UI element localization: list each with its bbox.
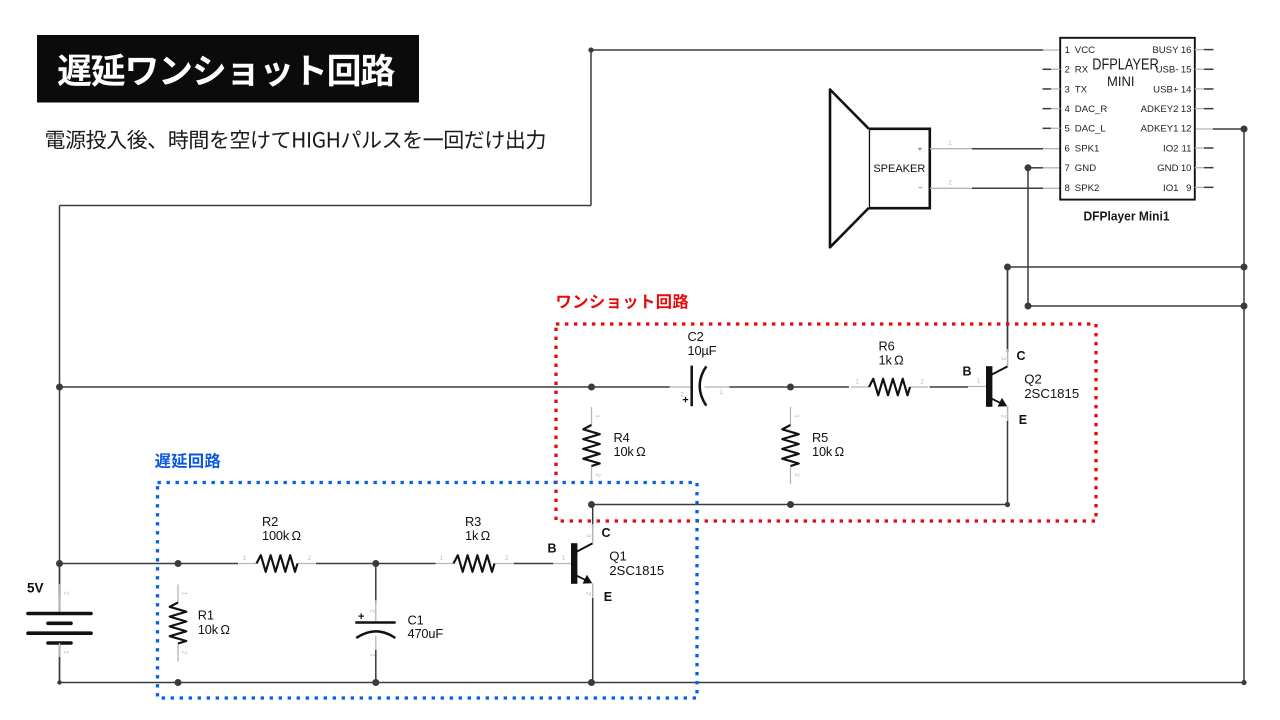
svg-text:VCC: VCC [1075,45,1095,56]
node: Q2 emitter joins row [1005,502,1010,507]
svg-text:1: 1 [719,389,723,396]
svg-text:RX: RX [1075,65,1089,76]
node: junction R4 top on supply row [588,384,595,391]
pin 14 USB+ [1195,88,1204,90]
svg-text:E: E [604,590,612,604]
svg-text:7: 7 [1065,163,1070,174]
svg-text:C2: C2 [688,329,704,344]
svg-text:B: B [962,365,971,379]
pin 15 USB- [1195,68,1204,70]
battery 5V [59,564,61,596]
svg-text:1: 1 [440,555,444,562]
svg-text:ADKEY1: ADKEY1 [1141,124,1179,135]
svg-text:MINI: MINI [1107,73,1135,89]
svg-text:SPK1: SPK1 [1075,143,1100,154]
svg-text:E: E [1019,413,1027,427]
svg-text:2: 2 [1000,415,1007,419]
svg-text:1: 1 [948,140,952,147]
svg-text:10k Ω: 10k Ω [614,444,647,459]
svg-text:3: 3 [1000,357,1007,361]
svg-text:TX: TX [1075,84,1088,95]
svg-text:2: 2 [793,473,800,477]
wire: one-shot supply row y=387 from left rail to C2 [60,386,671,388]
svg-text:10: 10 [1181,163,1192,174]
wire: C2 right side to R5 node [705,386,732,388]
svg-text:Q2: Q2 [1024,372,1042,387]
wire: 5V rail top-left horizontal run y=205.5 [60,205,592,207]
svg-text:2SC1815: 2SC1815 [1024,386,1079,401]
svg-text:10µF: 10µF [688,343,717,358]
subtitle [46,130,544,150]
svg-text:470uF: 470uF [408,626,444,641]
svg-text:ADKEY2: ADKEY2 [1141,104,1179,115]
svg-text:IO1: IO1 [1163,183,1178,194]
svg-text:13: 13 [1181,104,1192,115]
wire: GND row y=306 from x=1028 to right rail [1028,305,1244,307]
svg-text:C: C [602,526,611,540]
svg-text:DAC_L: DAC_L [1075,124,1107,135]
label delay (blue) [155,453,221,469]
svg-text:2: 2 [369,609,376,613]
svg-text:Q1: Q1 [609,549,627,564]
node: junction at pin7 wire (1028,168) [1025,164,1032,171]
wire: pin7 GND stub [1028,167,1043,169]
svg-text:1: 1 [855,379,859,386]
node: junction R4 bottom / Q1 collector / row [588,501,595,508]
resistor R3 [436,563,454,565]
wire: R5 node to R6 to Q2 base [791,386,850,388]
svg-text:1: 1 [181,592,188,596]
node: corner at (1244,682.5) [1241,680,1246,685]
transistor Q1 2SC1815 [571,543,577,584]
delay region box (blue dotted) [158,483,698,699]
pin 9 IO1 [1195,186,1204,188]
svg-text:B: B [547,542,556,556]
svg-text:2: 2 [920,379,924,386]
node: junction C1 bottom at bottom rail [372,679,379,686]
svg-text:1k Ω: 1k Ω [879,353,905,368]
one-shot region box (red dotted) [556,324,1096,521]
node: junction at (1007.5,267) [1004,264,1011,271]
wire: pin12 ADKEY1 stub to right rail [1196,128,1213,130]
svg-text:IO2: IO2 [1163,143,1178,154]
title block [37,35,419,103]
wire: Q1 collector to one-shot bottom row [592,505,594,528]
wire: right rail x=1244 from y=129 to bottom rail [1243,129,1245,683]
capacitor C2 10uF [690,366,693,407]
capacitor C1 470uF [375,564,377,604]
svg-text:2: 2 [181,651,188,655]
svg-text:GND: GND [1157,163,1178,174]
wire: top run y=50 to DFPlayer pin1 VCC [591,49,1043,51]
node: corner dot at (1244,129) [1241,126,1248,133]
node: junction Q1 emitter at bottom rail [588,679,595,686]
svg-text:1: 1 [1065,45,1070,56]
pin 5 DAC_L [1043,127,1052,129]
svg-text:BUSY: BUSY [1152,45,1179,56]
svg-text:16: 16 [1181,45,1192,56]
pin 2 RX [1043,68,1052,70]
wire: one-shot bottom row y=504.5 from Q1 collector node to Q2 emitter [592,504,1008,506]
svg-text:SPEAKER: SPEAKER [873,163,925,175]
svg-text:2: 2 [505,555,509,562]
svg-text:R1: R1 [198,608,214,623]
svg-text:DAC_R: DAC_R [1075,104,1108,115]
pin 4 DAC_R [1043,108,1052,110]
node: corner at battery bottom (59.5,682.5) [57,680,61,684]
node: junction C1 top on delay row [372,560,379,567]
wire: bottom ground rail y=682.5 [60,682,1245,684]
node: junction at (1028,306) [1025,303,1032,310]
svg-text:−: − [918,184,923,193]
wire: battery bottom lead to bottom rail [59,645,61,683]
node: junction at (1244,267) [1241,264,1248,271]
pin 3 TX [1043,88,1052,90]
svg-text:12: 12 [1181,124,1192,135]
svg-text:1: 1 [562,555,566,562]
svg-text:R3: R3 [465,514,481,529]
wire: speaker - to pin8 SPK2 [930,187,972,189]
label one-shot (red) [557,294,688,309]
svg-text:11: 11 [1182,143,1192,154]
pin 10 GND [1195,167,1204,169]
svg-text:9: 9 [1186,183,1191,194]
wire: speaker + to pin6 SPK1 [930,148,972,150]
node: junction at (1244,306) [1241,303,1248,310]
svg-text:DFPlayer Mini1: DFPlayer Mini1 [1084,210,1170,224]
svg-text:10k Ω: 10k Ω [812,444,845,459]
wire: left 5V rail x=59.5 from y=205.5 to battery top [59,206,61,613]
svg-text:GND: GND [1075,163,1096,174]
resistor R5 [790,407,792,425]
svg-text:2: 2 [63,591,70,595]
svg-text:1: 1 [793,414,800,418]
wire: vertical riser x=591 from y=205.5 to y=50 [590,50,592,206]
svg-text:5V: 5V [27,581,44,596]
svg-text:DFPLAYER: DFPLAYER [1092,56,1159,73]
speaker SPEAKER [869,129,930,208]
svg-text:2: 2 [308,555,312,562]
svg-text:R4: R4 [614,430,630,445]
node: junction left rail / one-shot supply row [56,384,63,391]
svg-text:15: 15 [1181,65,1192,76]
node: junction left rail / delay row [56,560,63,567]
wire: GND riser x=1028 from pin7 down to y=306 [1027,168,1029,306]
svg-text:R5: R5 [812,430,828,445]
svg-text:5: 5 [1065,124,1070,135]
node: junction R1 top on delay row [175,560,182,567]
svg-text:100k Ω: 100k Ω [262,528,302,543]
svg-text:1: 1 [977,378,981,385]
svg-text:SPK2: SPK2 [1075,183,1100,194]
resistor R1 [177,585,179,603]
svg-text:+: + [358,611,364,623]
svg-text:2: 2 [948,180,952,187]
wire: Q1 emitter to ground rail [592,584,594,602]
svg-text:10k Ω: 10k Ω [198,622,231,637]
svg-text:R6: R6 [879,339,895,354]
svg-text:2: 2 [594,473,601,477]
wire: delay row y=563.5 from left rail to Q1 base [60,563,239,565]
svg-text:4: 4 [1065,104,1071,115]
svg-text:USB+: USB+ [1153,84,1179,95]
IC U1 DFPlayer Mini [1060,38,1195,200]
svg-text:R2: R2 [262,514,278,529]
svg-text:+: + [918,145,923,154]
pin 11 IO2 [1195,147,1204,149]
node: corner at (591,50) [588,47,593,52]
wire: Q2 collector riser x=1007.5 up to ADKEY1 row [1007,267,1009,352]
node: junction R1 bottom at bottom rail [175,679,182,686]
svg-text:3: 3 [1065,84,1070,95]
resistor R6 [851,386,869,388]
svg-text:1: 1 [594,414,601,418]
resistor R2 [239,563,257,565]
svg-text:C: C [1017,349,1026,363]
svg-text:3: 3 [585,534,592,538]
svg-text:1: 1 [369,653,376,657]
wire: Q2 collector riser [1007,267,1009,352]
svg-text:2SC1815: 2SC1815 [609,563,664,578]
node: junction R5 top / C2-R6 row [787,384,794,391]
svg-text:USB-: USB- [1156,65,1179,76]
svg-text:2: 2 [585,592,592,596]
svg-text:1k Ω: 1k Ω [465,528,491,543]
svg-text:14: 14 [1181,84,1192,95]
svg-text:8: 8 [1065,183,1070,194]
pin 13 ADKEY2 [1195,108,1204,110]
svg-text:1: 1 [63,650,70,654]
resistor R4 [591,407,593,425]
svg-text:6: 6 [1065,143,1070,154]
pin 16 BUSY [1195,49,1204,51]
node: junction R5 bottom [787,501,794,508]
wire: ADKEY1 horizontal row y=267 [1008,266,1245,268]
svg-text:2: 2 [1065,65,1070,76]
wire: Q2 emitter to one-shot bottom row [1007,407,1009,425]
transistor Q2 2SC1815 [986,366,992,407]
svg-text:+: + [682,395,688,407]
svg-text:1: 1 [243,555,247,562]
